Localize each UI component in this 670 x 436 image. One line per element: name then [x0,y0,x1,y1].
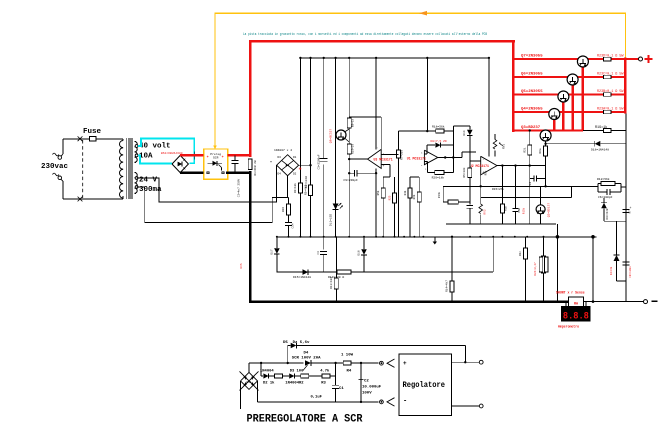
svg-text:R10=10: R10=10 [351,144,354,154]
svg-text:Q2=BD137: Q2=BD137 [548,203,551,218]
svg-text:+: + [207,156,209,160]
svg-text:U1 MC33171: U1 MC33171 [407,156,426,160]
svg-text:RV1: RV1 [503,144,506,149]
svg-text:R25: R25 [389,195,392,200]
svg-text:D14: D14 [463,130,466,135]
svg-text:D17: D17 [271,249,274,254]
svg-text:8.8.8: 8.8.8 [563,312,589,323]
svg-text:230vac: 230vac [41,163,69,171]
svg-text:R9a: R9a [539,148,542,153]
svg-text:D2: D2 [293,173,297,176]
svg-text:R5=10k: R5=10k [462,167,466,177]
svg-text:PREREGOLATORE A SCR: PREREGOLATORE A SCR [247,414,363,426]
svg-text:C1: C1 [339,387,344,391]
svg-text:R14b: R14b [437,191,441,198]
svg-text:D4: D4 [304,352,309,356]
svg-text:-: - [270,159,273,165]
svg-text:R26: R26 [282,207,285,212]
svg-text:C14: C14 [292,223,295,228]
svg-text:C5b: C5b [517,208,521,213]
svg-text:R23C=0,1 Ω 5W: R23C=0,1 Ω 5W [597,73,624,77]
svg-text:BS1: BS1 [246,381,251,384]
svg-text:R23B=0,1 Ω 5W: R23B=0,1 Ω 5W [597,90,624,94]
svg-text:R8=1k: R8=1k [350,118,354,127]
svg-text:Q4=2N3055: Q4=2N3055 [521,108,543,112]
svg-text:R20=18k: R20=18k [432,175,445,179]
svg-text:D8=7,5 ZD: D8=7,5 ZD [431,140,447,143]
svg-text:R19=1k: R19=1k [595,125,607,130]
svg-text:10A: 10A [139,153,153,161]
svg-text:Q6=2N3055: Q6=2N3055 [521,73,543,77]
svg-text:R1=6K8 2W: R1=6K8 2W [254,160,257,175]
svg-text:R14=4k7: R14=4k7 [445,280,449,292]
svg-text:C7: C7 [629,210,632,214]
svg-text:BS1=KBU6J600: BS1=KBU6J600 [161,152,183,155]
svg-text:U3 MC33171: U3 MC33171 [374,158,393,162]
svg-text:D9=4148: D9=4148 [606,208,609,219]
svg-text:R23D=0,1 Ω 5W: R23D=0,1 Ω 5W [597,55,624,59]
svg-text:C2: C2 [364,379,369,383]
svg-text:R11=100: R11=100 [330,277,333,289]
svg-text:1N4007 x 4: 1N4007 x 4 [274,149,292,152]
svg-text:C4: C4 [317,251,320,255]
svg-text:Q8=BC327: Q8=BC327 [330,129,333,144]
svg-text:R2c: R2c [519,251,522,256]
svg-text:D3 100: D3 100 [290,370,304,374]
svg-text:R2=1k2W: R2=1k2W [304,176,308,188]
svg-text:DL1=LED: DL1=LED [330,214,333,226]
svg-text:C3=2200uF: C3=2200uF [318,154,321,169]
svg-text:Regolatore: Regolatore [403,382,446,390]
svg-text:La pista tracciata in grassett: La pista tracciata in grassetto rosso, c… [243,32,487,36]
svg-text:R21: R21 [523,147,526,152]
svg-text:10.000uF: 10.000uF [362,385,382,389]
svg-text:C8=100n: C8=100n [629,266,632,278]
svg-text:R24=0,47: R24=0,47 [534,262,537,276]
svg-text:R4b: R4b [403,190,407,195]
svg-text:D2 1k: D2 1k [263,381,275,386]
svg-text:R5b: R5b [376,190,380,195]
svg-text:D15=1N4148: D15=1N4148 [293,276,311,279]
svg-text:R23A=0,1 Ω 5W: R23A=0,1 Ω 5W [597,108,624,112]
svg-text:C6=100pF: C6=100pF [598,196,613,199]
svg-text:+: + [299,167,302,173]
svg-text:DIS: DIS [240,263,243,268]
svg-text:4.7k: 4.7k [320,369,330,374]
svg-text:R18=56k: R18=56k [432,125,445,129]
svg-text:Prereg: Prereg [210,153,221,156]
svg-text:R5b: R5b [483,170,487,175]
svg-text:R7=560: R7=560 [401,150,404,160]
svg-text:40 volt: 40 volt [139,143,171,151]
svg-text:D18=1N4148: D18=1N4148 [591,149,609,152]
svg-text:SCR 100V 20A: SCR 100V 20A [292,356,321,360]
svg-text:1N4004R2: 1N4004R2 [285,382,304,386]
svg-text:-: - [403,397,407,405]
svg-text:SHUNT x r Sense: SHUNT x r Sense [556,291,585,295]
svg-text:R12=56k: R12=56k [597,177,610,181]
svg-text:Q3=BD237: Q3=BD237 [521,126,541,130]
svg-text:R3: R3 [321,382,326,386]
svg-text:R15b: R15b [521,207,525,214]
svg-text:D16: D16 [358,250,361,255]
svg-text:Q7=2N3055: Q7=2N3055 [521,55,543,59]
svg-text:C2=4n7 250V: C2=4n7 250V [238,178,241,197]
svg-text:1N4004: 1N4004 [260,370,274,374]
svg-text:+: + [222,156,224,160]
svg-text:Fuse: Fuse [83,128,102,136]
svg-text:+: + [403,360,407,367]
svg-text:100V: 100V [362,391,372,395]
svg-text:R3b: R3b [504,206,508,211]
svg-text:C9=330pF: C9=330pF [343,179,358,182]
svg-text:R4: R4 [347,370,352,374]
svg-text:SCR: SCR [213,156,219,159]
svg-text:1 10W: 1 10W [341,353,354,357]
svg-text:D1: D1 [293,156,297,159]
svg-text:Q5=2N3055: Q5=2N3055 [521,90,543,94]
svg-text:D3: D3 [278,156,282,159]
svg-text:0,1uF: 0,1uF [311,395,323,399]
svg-text:D4: D4 [278,173,282,176]
svg-text:+: + [630,206,632,210]
svg-text:U2 MC33171: U2 MC33171 [470,164,489,168]
svg-text:-: - [482,159,484,163]
svg-text:RV2: RV2 [484,209,487,214]
svg-text:D5 Dz 5,6v: D5 Dz 5,6v [283,341,310,345]
svg-text:Amperometro: Amperometro [558,325,579,329]
svg-text:R2=10k: R2=10k [293,183,297,193]
svg-text:D24=B: D24=B [610,266,613,275]
svg-text:R9b: R9b [412,194,416,199]
